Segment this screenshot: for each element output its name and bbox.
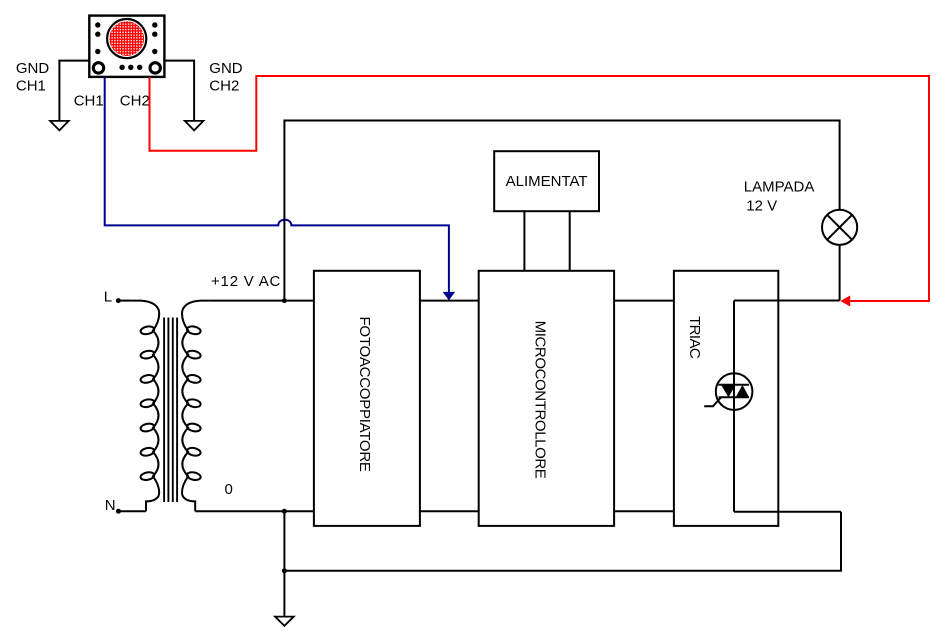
svg-text:GND: GND: [16, 60, 50, 77]
svg-text:12 V: 12 V: [746, 198, 777, 215]
svg-text:LAMPADA: LAMPADA: [744, 179, 815, 196]
wire alimentat left: [523, 211, 525, 271]
transformer T1: [132, 301, 209, 512]
oscilloscope panel dots: [95, 22, 157, 70]
oscilloscope screen: [107, 19, 146, 58]
svg-text:CH1: CH1: [74, 92, 104, 109]
svg-text:FOTOACCOPPIATORE: FOTOACCOPPIATORE: [356, 316, 373, 471]
transformer secondary loops: [186, 325, 201, 335]
svg-text:MICROCONTROLLORE: MICROCONTROLLORE: [532, 321, 549, 479]
svg-text:0: 0: [225, 481, 233, 498]
wire triac anode: [734, 301, 840, 512]
wire rail foto-micro: [420, 300, 479, 302]
junction node bottom: [282, 568, 287, 573]
ground main: [275, 617, 294, 626]
ground GND CH2: [185, 121, 204, 130]
ground GND CH1: [50, 121, 69, 130]
svg-text:+12 V AC: +12 V AC: [211, 273, 281, 290]
svg-text:GND: GND: [209, 60, 243, 77]
block TRIAC: [674, 271, 778, 526]
wire node to bottom ground: [283, 511, 285, 616]
oscilloscope knob CH2: [150, 63, 160, 73]
junction node 0V: [282, 509, 287, 514]
svg-text:CH1: CH1: [16, 78, 46, 95]
wire lamp to node: [839, 245, 841, 301]
terminal L: [116, 298, 121, 303]
wire CH2 probe (red): [150, 76, 930, 301]
terminal N: [116, 509, 121, 514]
transformer primary loops: [140, 325, 155, 335]
junction node +12V: [282, 298, 287, 303]
arrow CH1 probe tip: [443, 292, 455, 301]
wire bottom rail micro-triac: [614, 510, 674, 512]
transformer primary winding: [132, 301, 159, 512]
wire N to primary: [118, 510, 145, 512]
transformer core: [164, 318, 177, 503]
wire bottom return: [284, 512, 841, 571]
arrow CH2 probe tip: [840, 296, 850, 307]
oscilloscope body: [89, 16, 164, 77]
wire rail micro-triac: [614, 300, 674, 302]
svg-text:L: L: [104, 288, 112, 305]
wire L to primary: [118, 300, 131, 302]
svg-text:N: N: [105, 497, 116, 514]
lamp LAMPADA 12V: [822, 210, 857, 245]
svg-text:ALIMENTAT: ALIMENTAT: [506, 173, 588, 190]
triac symbol: [704, 373, 752, 410]
wire CH1 probe (blue): [105, 77, 449, 292]
svg-text:TRIAC: TRIAC: [686, 316, 703, 359]
wire secondary top rail: [209, 300, 314, 302]
block MICROCONTROLLORE: [479, 271, 614, 526]
block FOTOACCOPPIATORE: [314, 271, 420, 526]
oscilloscope knob CH1: [93, 63, 103, 73]
wire top rail: [284, 121, 839, 301]
block ALIMENTAT: [494, 151, 599, 211]
wire scope left to ground GND CH1: [59, 61, 89, 121]
svg-text:CH2: CH2: [209, 78, 239, 95]
transformer secondary winding: [182, 301, 209, 512]
wire triac cathode return: [734, 511, 841, 513]
wire alimentat right: [569, 211, 571, 271]
svg-text:CH2: CH2: [120, 92, 150, 109]
wire bottom rail foto-micro: [420, 510, 479, 512]
wire secondary bottom rail: [195, 510, 314, 512]
wire scope right to ground GND CH2: [164, 61, 194, 121]
